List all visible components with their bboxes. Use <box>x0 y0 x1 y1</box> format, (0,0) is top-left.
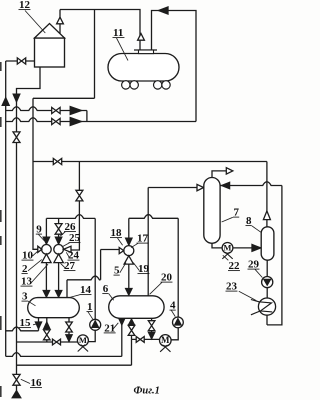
wire vapor drop line to nozzle mixer left port <box>33 98 38 249</box>
arrow down on vessel 3 right drain <box>66 335 73 342</box>
valve on vessel 3 right drain <box>66 322 73 332</box>
valve 26 on mixer 2 feed <box>55 224 62 235</box>
arrow on manifold line 2 <box>70 117 82 125</box>
wire column 7 vent line <box>212 171 226 178</box>
tank 11 wheel 4 <box>162 81 170 89</box>
arrow up on vessel 6 valved drain <box>128 319 135 325</box>
valve 27 hourglass <box>76 190 83 201</box>
valve 16 on blowdown line <box>13 374 20 385</box>
mixer 17 left port 18 <box>119 248 124 254</box>
tank 11 wheel 2 <box>130 81 138 89</box>
wire tank 12 bottom drain with jog <box>17 67 41 391</box>
mixer nozzle 17 body <box>124 246 134 256</box>
wire vapor line elbow to left <box>33 97 95 99</box>
wire mixers top header <box>46 215 95 219</box>
wire right return riser <box>267 186 282 325</box>
wire manifold line 2 <box>6 118 196 122</box>
tank 11 wheel 3 <box>154 81 162 89</box>
wire return header to tank 11 with right downcomer <box>152 11 197 122</box>
wire branch to column 7 inlet <box>148 187 197 189</box>
mixer 25 right port 24 <box>64 246 71 252</box>
wire pump 1 suction line <box>17 341 78 343</box>
arrow into vessel 3 from mixer 9 <box>43 290 50 297</box>
mixer nozzle 25 body <box>54 245 64 255</box>
wire line 20 to vessel 6 <box>147 188 149 296</box>
valve on vessel 6 right drain <box>148 321 155 331</box>
valve on tank 12 feed line <box>17 58 25 64</box>
arrow flow into vessel 8 <box>252 244 261 251</box>
arrow into vessel 6 from mixer 17 <box>125 288 132 295</box>
wire vessel 6 left drain <box>121 318 123 356</box>
arrow flow into tank 11 return line <box>158 7 168 15</box>
pump 29 impeller <box>264 279 271 286</box>
wire mixer 17 outlet to vessel 6 <box>128 264 130 288</box>
wire drain line B to vessel 6 drain <box>6 353 122 357</box>
wire pump 4 suction line <box>132 338 160 340</box>
arrow into vessel 3 from mixer 25 <box>55 290 62 297</box>
valve on vessel 3 valved drain <box>44 330 51 340</box>
heat exchanger 23 body <box>258 298 275 315</box>
wire manifold line 1 <box>6 107 87 111</box>
arrow into mixer 9 top <box>43 237 50 245</box>
valve on distribution line <box>53 158 61 164</box>
pump 1 body <box>90 319 101 330</box>
arrow on manifold line 1 <box>70 106 82 114</box>
wire tank 12 feed line <box>6 60 35 62</box>
wire mixer 25 outlet to vessel 3 <box>58 263 60 291</box>
wire mid mixer left port feed <box>101 249 120 251</box>
wire mixer 1 top feed <box>45 218 47 241</box>
wire vessel 6 valved drain <box>131 318 133 339</box>
valve on drain line <box>13 132 20 143</box>
tank 12 body <box>35 38 65 67</box>
vessel 3 body <box>28 298 80 318</box>
wire column 7 reflux line from right <box>220 182 282 186</box>
wire column 7 bottoms to pump 22 <box>212 243 222 248</box>
wire manifold 1 elbow down to manifold 2 <box>86 111 88 122</box>
tank 11 wheel 1 <box>122 81 130 89</box>
breather valve on tank 11 riser <box>138 34 145 41</box>
wire pump 4 riser <box>177 218 179 317</box>
tank 11 railway cistern body <box>108 54 179 82</box>
mixer 9 diffuser 2 <box>42 254 51 263</box>
arrow up on vessel 3 valved drain <box>44 322 51 329</box>
mixer nozzle 9 body <box>42 245 52 255</box>
mixer 9 left port 10 <box>38 246 42 252</box>
arrow up flow on left riser <box>2 97 10 105</box>
wire top header from tank 12 to tank 11 riser <box>60 10 140 51</box>
wire vertical vapor line from top header down <box>94 10 96 99</box>
motor pump 22 <box>222 243 233 254</box>
arrow into mixer 25 top <box>55 237 62 245</box>
valve on vessel 6 valved drain <box>128 325 135 335</box>
wire vessel 8 bottom to pump 29 <box>266 260 268 276</box>
wire vessel 3 valved drain <box>46 318 48 342</box>
arrow open into column 7 left <box>197 184 204 190</box>
wire drain line C <box>17 339 132 365</box>
arrow down flow on drain line <box>13 94 20 102</box>
wire left supply riser <box>5 61 7 356</box>
mixer 25 diffuser 27 <box>54 254 63 263</box>
arrow down on vessel 3 left drain <box>35 322 42 329</box>
wire pump 29 to exchanger 23 <box>266 288 268 298</box>
svg-text:M: M <box>161 335 170 345</box>
wire pump 1 discharge riser <box>94 218 96 319</box>
tank 11 hatch platform <box>134 49 157 51</box>
tank 11 dome <box>139 50 154 54</box>
wire vessel 3 right drain <box>68 318 70 342</box>
valve on manifold line 1 <box>52 107 60 113</box>
motor M2 of pump 4 <box>160 335 172 347</box>
arrow open vent outlet <box>226 168 233 174</box>
svg-text:M: M <box>79 335 87 345</box>
pump 4 body <box>173 317 184 328</box>
wire branch to valve 27 down to mixer right port <box>71 162 79 251</box>
motor M1 of pump 1 <box>77 335 88 346</box>
wire mid mixer feed from vessel 3 loop <box>100 250 102 280</box>
valve on manifold line 2 <box>52 118 60 124</box>
mixer 17 diffuser 5 <box>124 256 133 264</box>
arrow open check on vessel 8 feed <box>263 211 270 220</box>
heat exchanger 23 coil <box>251 300 272 315</box>
wire vessel 8 feed downcomer <box>266 162 268 227</box>
wire mid mixer top feed <box>128 218 130 245</box>
arrow into mixer 17 top <box>125 238 132 246</box>
page edge artifacts <box>0 62 2 71</box>
wire vessel 3 left drain <box>38 318 40 331</box>
arrow down on vessel 6 left drain <box>118 318 125 325</box>
breather valve on tank 12 roof <box>59 10 61 34</box>
vessel 8 body <box>261 227 274 260</box>
wire vessel 3 top return line <box>67 276 101 280</box>
wire motor M1 to pump 1 <box>88 330 95 341</box>
svg-text:M: M <box>224 244 232 253</box>
valve on pump 1 suction <box>53 339 61 345</box>
valve on pump 4 suction <box>136 337 144 343</box>
pump 1 impeller <box>92 320 99 327</box>
arrow down on vessel 6 right drain <box>148 332 155 339</box>
wire pump 22 to vessel 8 <box>233 247 252 249</box>
wire vessel 6 right drain <box>151 318 153 339</box>
wire mixer 9 outlet to vessel 3 <box>45 263 47 291</box>
pump 29 body <box>262 277 273 288</box>
wire mixer 2 top feed <box>58 218 60 241</box>
wire exchanger bottom stub <box>266 315 268 325</box>
wire motor M2 to pump 4 <box>171 328 178 340</box>
wire pump 4 discharge header <box>129 215 178 219</box>
arrow flow into column 7 right <box>221 182 230 189</box>
arrow terminal of blowdown <box>12 390 21 398</box>
svg-text:Фиг.1: Фиг.1 <box>134 386 160 397</box>
wire line 14 into vessel 3 <box>66 280 68 298</box>
tank 12 roof <box>35 24 65 39</box>
vessel 6 body <box>109 296 164 319</box>
pump 4 impeller <box>174 318 181 325</box>
wire nitrogen distribution line to vessel 8 <box>33 161 267 163</box>
wire drain line A to left <box>6 327 39 331</box>
column 7 body <box>204 178 220 244</box>
